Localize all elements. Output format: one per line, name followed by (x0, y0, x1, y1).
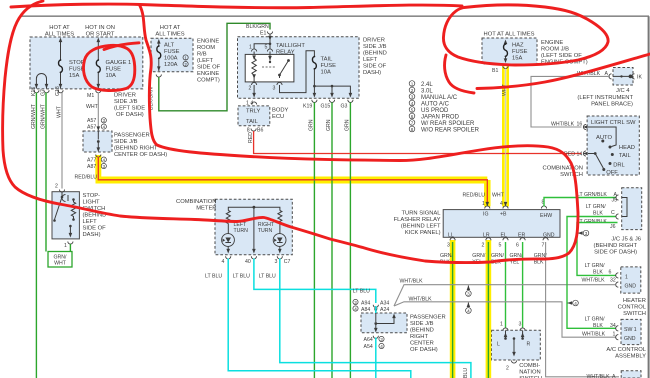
svg-text:DRIVER: DRIVER (114, 93, 136, 99)
svg-text:ASSEMBLY: ASSEMBLY (615, 354, 646, 360)
stop light switch box (52, 192, 79, 239)
svg-text:L: L (497, 342, 500, 348)
svg-text:G3: G3 (341, 104, 348, 110)
RED wire from B6 to light control switch (254, 131, 582, 154)
svg-text:J/C J5 & J6: J/C J5 & J6 (611, 237, 641, 243)
svg-text:HOT IN ON: HOT IN ON (85, 25, 115, 31)
svg-text:OFF: OFF (606, 170, 618, 176)
svg-text:AUTO: AUTO (596, 135, 612, 141)
svg-text:RED: RED (248, 132, 254, 143)
blob lower sweep (477, 54, 650, 89)
gauge 1 fuse (96, 59, 100, 73)
svg-text:B6: B6 (257, 128, 263, 134)
svg-text:3: 3 (585, 231, 588, 236)
svg-text:WHT/BLK: WHT/BLK (400, 279, 424, 285)
svg-text:A54: A54 (364, 344, 373, 350)
svg-text:2: 2 (249, 86, 252, 92)
engine room J/B HAZ fuse box (482, 38, 537, 64)
svg-text:3: 3 (447, 243, 450, 249)
svg-text:GND: GND (624, 336, 636, 342)
svg-text:US PROD: US PROD (421, 108, 449, 114)
svg-text:2: 2 (506, 366, 509, 372)
svg-text:120A: 120A (164, 62, 178, 68)
stop fuse feed arrow (60, 41, 62, 60)
WHT wire M1 to A57 (97, 93, 99, 129)
svg-text:3: 3 (519, 322, 522, 328)
svg-text:2: 2 (411, 88, 414, 93)
svg-text:A77: A77 (87, 158, 96, 164)
svg-text:WHT: WHT (54, 261, 67, 267)
svg-text:A24: A24 (380, 307, 389, 313)
svg-text:3: 3 (273, 86, 276, 92)
switch common stem to pin 2 (513, 337, 516, 340)
tail fuse (312, 56, 316, 70)
svg-text:3: 3 (103, 118, 106, 123)
svg-text:4: 4 (103, 125, 106, 130)
svg-text:HEATER: HEATER (623, 298, 646, 304)
svg-text:A/C CONTROL: A/C CONTROL (606, 347, 646, 353)
footnote marker 3 (578, 231, 583, 235)
svg-text:4: 4 (222, 259, 225, 265)
svg-text:16: 16 (577, 122, 583, 128)
svg-text:DRIVER: DRIVER (363, 38, 385, 44)
svg-text:5: 5 (499, 243, 502, 249)
svg-text:2.4L: 2.4L (421, 82, 433, 88)
svg-text:WHT: WHT (57, 105, 63, 118)
svg-text:1 4: 1 4 (246, 101, 253, 107)
top bus (228, 207, 280, 210)
svg-text:G13: G13 (55, 86, 61, 96)
ALT terminal (156, 75, 161, 78)
terminals A94/A84 A34/A24 (353, 299, 358, 305)
svg-text:K19: K19 (303, 104, 312, 110)
svg-text:4: 4 (500, 201, 503, 207)
C wire down to A/C assembly (567, 217, 616, 329)
svg-text:BODY: BODY (272, 108, 289, 114)
svg-text:1: 1 (249, 45, 252, 51)
svg-text:A57: A57 (87, 118, 96, 124)
svg-text:SIDE J/B: SIDE J/B (363, 44, 387, 50)
footnote arrow 4 (467, 303, 471, 308)
flick over circle (104, 43, 139, 50)
svg-text:TURN SIGNAL: TURN SIGNAL (402, 211, 442, 217)
svg-text:7: 7 (542, 243, 545, 249)
J6 wire down to heater switch (577, 223, 618, 276)
svg-text:GRN/: GRN/ (491, 253, 505, 259)
svg-text:(BEHIND LEFT: (BEHIND LEFT (401, 224, 441, 230)
svg-text:W/O REAR SPOILER: W/O REAR SPOILER (421, 128, 480, 134)
HAZ blob (443, 5, 608, 65)
svg-text:DASH): DASH) (363, 70, 381, 76)
svg-text:3: 3 (411, 95, 414, 100)
svg-text:GRN: GRN (309, 119, 315, 131)
svg-text:COMBINATION: COMBINATION (176, 199, 216, 205)
svg-text:TAIL: TAIL (246, 119, 259, 125)
svg-text:3.0L: 3.0L (421, 89, 433, 95)
svg-text:(LEFT: (LEFT (197, 58, 214, 64)
svg-text:LT GRN/: LT GRN/ (585, 317, 606, 323)
svg-text:FUSE: FUSE (321, 63, 337, 69)
svg-text:LIGHT CTRL SW: LIGHT CTRL SW (591, 120, 636, 126)
svg-text:HEAD: HEAD (619, 145, 635, 151)
svg-text:(LEFT SIDE: (LEFT SIDE (114, 106, 145, 112)
svg-text:PASSENGER: PASSENGER (410, 315, 446, 321)
circled 2 (183, 61, 188, 67)
svg-text:TAILLIGHT: TAILLIGHT (276, 43, 305, 49)
svg-text:EHW: EHW (540, 213, 552, 219)
footnote arrow 3 (467, 286, 471, 291)
svg-text:32: 32 (610, 278, 616, 284)
svg-text:(LEFT INSTRUMENT: (LEFT INSTRUMENT (577, 95, 633, 101)
gauge fuse circle (83, 45, 134, 90)
right resistor (278, 211, 282, 224)
svg-text:LT BLU: LT BLU (463, 368, 469, 378)
svg-text:METER: METER (196, 206, 216, 212)
svg-text:ECU: ECU (272, 114, 284, 120)
taillight relay inner box (245, 54, 294, 82)
svg-text:1: 1 (625, 275, 628, 281)
svg-text:M1: M1 (87, 93, 94, 99)
svg-text:ROOM J/B: ROOM J/B (541, 47, 569, 53)
svg-text:HOT AT: HOT AT (160, 25, 181, 31)
RED/BLU wire core (highlighted) (98, 157, 487, 206)
svg-text:COMPT): COMPT) (197, 78, 220, 84)
svg-text:B1: B1 (492, 68, 498, 74)
engine room R/B ALT fuse box (151, 38, 193, 71)
svg-text:CENTER OF DASH): CENTER OF DASH) (114, 152, 167, 158)
feed to pin 5 (269, 44, 271, 49)
svg-text:J5: J5 (612, 198, 618, 204)
svg-text:WHT/BLK: WHT/BLK (587, 374, 611, 378)
svg-text:J/C 4: J/C 4 (616, 88, 630, 94)
svg-text:A57: A57 (87, 125, 96, 131)
svg-text:WHT: WHT (492, 193, 505, 199)
svg-text:PANEL BRACE): PANEL BRACE) (591, 102, 633, 108)
svg-text:BLK/GRN: BLK/GRN (246, 24, 269, 30)
light control switch box (587, 116, 639, 175)
svg-text:10A: 10A (106, 73, 116, 79)
svg-text:40: 40 (245, 259, 251, 265)
svg-text:(BEHIND: (BEHIND (363, 51, 387, 57)
svg-text:G15: G15 (321, 104, 331, 110)
svg-text:CENTER: CENTER (410, 341, 434, 347)
svg-text:RELAY: RELAY (276, 50, 295, 56)
svg-text:GRN: GRN (326, 119, 332, 131)
svg-text:ALL TIMES: ALL TIMES (45, 32, 74, 38)
svg-text:GRN/: GRN/ (440, 253, 454, 259)
svg-text:MANUAL A/C: MANUAL A/C (421, 95, 458, 101)
svg-text:(BEHIND RIGHT: (BEHIND RIGHT (114, 146, 158, 152)
svg-text:A87: A87 (87, 164, 96, 170)
svg-text:+B: +B (500, 212, 507, 218)
svg-text:TURN: TURN (234, 228, 249, 234)
svg-text:RED/BLU: RED/BLU (463, 193, 486, 199)
svg-text:ALL TIMES: ALL TIMES (155, 32, 184, 38)
svg-text:SIDE J/B: SIDE J/B (114, 99, 138, 105)
relay contact (269, 54, 271, 60)
svg-text:1: 1 (184, 55, 187, 60)
svg-text:E1: E1 (260, 31, 266, 37)
svg-text:SWITCH: SWITCH (560, 172, 583, 178)
svg-text:IG: IG (483, 212, 488, 218)
svg-text:1: 1 (64, 243, 67, 249)
svg-text:ENGINE: ENGINE (197, 71, 219, 77)
svg-text:FLASHER RELAY: FLASHER RELAY (394, 217, 441, 223)
feed to pin 1 (254, 44, 270, 49)
svg-text:FUSE: FUSE (164, 49, 180, 55)
svg-text:IK: IK (637, 75, 642, 81)
driver side J/B fuse box (left) (30, 37, 143, 89)
svg-text:LT BLU: LT BLU (233, 274, 250, 280)
wire GRN/WHT K15 (35, 93, 37, 378)
highlighted LL wire (450, 240, 456, 378)
svg-text:TURN: TURN (258, 228, 273, 234)
svg-text:ENGINE: ENGINE (541, 40, 563, 46)
svg-text:(LEFT SIDE OF: (LEFT SIDE OF (541, 53, 582, 59)
turn signal flasher relay box (443, 210, 560, 238)
svg-text:GAUGE 1: GAUGE 1 (106, 60, 132, 66)
svg-text:SIDE OF: SIDE OF (197, 65, 221, 71)
svg-text:2: 2 (55, 184, 58, 190)
svg-text:8: 8 (411, 127, 414, 132)
svg-text:4: 4 (411, 101, 414, 106)
svg-text:OF DASH): OF DASH) (410, 347, 438, 353)
svg-text:4: 4 (103, 158, 106, 163)
svg-text:CONTROL: CONTROL (618, 305, 647, 311)
highlighted RED/BLU wire vertical from passenger J/B (95, 155, 101, 180)
K19 G15 G3 terminals (312, 100, 317, 103)
svg-text:A34: A34 (380, 301, 389, 307)
svg-text:LT BLU: LT BLU (259, 274, 276, 280)
stop fuse lead down (60, 73, 62, 89)
svg-text:A: A (612, 374, 616, 378)
svg-text:WHT: WHT (502, 83, 508, 96)
E1 terminal (267, 32, 272, 35)
highlighted horizontal run (96, 177, 488, 184)
svg-text:GRN/: GRN/ (472, 253, 486, 259)
svg-text:(BEHIND RIGHT: (BEHIND RIGHT (594, 243, 638, 249)
svg-text:5: 5 (411, 108, 414, 113)
top stroke (11, 4, 462, 8)
svg-text:HAZ: HAZ (512, 43, 524, 49)
svg-text:ALT: ALT (164, 43, 175, 49)
svg-text:7: 7 (411, 121, 414, 126)
svg-text:SWITCH: SWITCH (623, 311, 646, 317)
svg-text:1: 1 (482, 201, 485, 207)
combination switch box (492, 330, 541, 360)
svg-text:C7: C7 (284, 259, 291, 265)
svg-text:3: 3 (103, 164, 106, 169)
svg-text:FUSE: FUSE (512, 49, 528, 55)
svg-text:3: 3 (354, 300, 357, 305)
blob tail (445, 55, 474, 93)
EHW wire to J/C (544, 198, 616, 207)
A/C control assembly box (621, 319, 641, 344)
svg-text:14: 14 (577, 152, 583, 158)
heater control switch box (621, 267, 641, 293)
resistor right side (72, 198, 75, 201)
big loop: between boxes, sweep right, plunge, return, left side (3, 1, 578, 263)
svg-text:SW 1: SW 1 (624, 327, 637, 333)
EL / ER wires (505, 242, 507, 328)
svg-text:W/ REAR SPOILER: W/ REAR SPOILER (421, 121, 475, 127)
svg-text:AUTO A/C: AUTO A/C (421, 102, 450, 108)
internal bracket (622, 198, 628, 217)
relay coil (252, 55, 256, 60)
svg-text:STOP-: STOP- (83, 193, 101, 199)
svg-text:LT GRN/: LT GRN/ (586, 204, 607, 210)
svg-text:GRN: GRN (345, 119, 351, 131)
svg-text:SIDE OF: SIDE OF (363, 64, 387, 70)
svg-text:15A: 15A (512, 56, 522, 62)
svg-text:3: 3 (275, 259, 278, 265)
svg-text:OR START: OR START (86, 32, 115, 38)
svg-text:FUSE: FUSE (106, 67, 122, 73)
HAZ fuse (504, 43, 508, 57)
jumper loop inside J/B (36, 73, 46, 88)
B1 terminal (503, 66, 508, 69)
svg-text:BLK: BLK (593, 211, 603, 217)
LL / LR green cores in yellow (452, 242, 454, 378)
svg-text:WHT/BLK: WHT/BLK (582, 332, 606, 338)
svg-text:DASH): DASH) (83, 232, 101, 238)
J/C box bottom right (621, 371, 641, 378)
svg-text:TRLY: TRLY (246, 109, 261, 115)
svg-text:JAPAN PROD: JAPAN PROD (421, 115, 460, 121)
svg-text:(BEHIND: (BEHIND (410, 328, 434, 334)
svg-text:WHT/BLK: WHT/BLK (582, 278, 606, 284)
svg-text:10A: 10A (321, 70, 331, 76)
bottom pins (226, 249, 230, 254)
svg-text:3: 3 (380, 337, 383, 342)
svg-text:6: 6 (411, 114, 414, 119)
left resistor (226, 211, 230, 224)
gauge fuse feed arrow (97, 41, 99, 60)
svg-text:SIDE OF: SIDE OF (83, 226, 107, 232)
WHT wire core from HAZ into +B (505, 69, 507, 206)
svg-text:C: C (611, 210, 615, 216)
svg-text:LEFT: LEFT (363, 57, 378, 63)
highlighted drop to IG pin (484, 180, 491, 207)
combination meter box (215, 199, 292, 255)
driver side J/B taillight relay box (238, 37, 360, 99)
svg-text:GRN/WHT: GRN/WHT (40, 103, 46, 129)
svg-text:LT GRN/: LT GRN/ (585, 263, 606, 269)
left turn LED (222, 234, 235, 247)
svg-text:R: R (527, 342, 531, 348)
GND wire to bottom J/C (546, 242, 619, 377)
svg-text:BLK: BLK (593, 323, 603, 329)
svg-text:1: 1 (411, 82, 414, 87)
svg-text:TAIL: TAIL (321, 57, 334, 63)
green wires K19 G15 G3 (313, 102, 315, 378)
svg-text:A64: A64 (364, 337, 373, 343)
svg-text:6: 6 (516, 243, 519, 249)
pin3 to tail fuse riser (280, 51, 315, 93)
GRN/WHT wire + label box (69, 244, 71, 252)
svg-text:GND: GND (625, 284, 637, 290)
J/B internal junction (374, 308, 378, 313)
svg-text:RED/BLU: RED/BLU (75, 175, 98, 181)
svg-text:100A: 100A (164, 56, 178, 62)
J/C 4 box (613, 68, 633, 86)
svg-text:OF DASH): OF DASH) (116, 112, 144, 118)
highlighted LR wire (486, 240, 492, 378)
svg-text:RIGHT: RIGHT (410, 334, 428, 340)
svg-text:PASSENGER: PASSENGER (114, 133, 150, 139)
wire GRN/WHT G7 (45, 93, 47, 252)
svg-text:COMBI-: COMBI- (519, 363, 540, 369)
svg-text:LT BLU: LT BLU (205, 274, 222, 280)
svg-text:KICK PANEL): KICK PANEL) (405, 230, 441, 236)
wire LT BLU below J/B (375, 338, 377, 378)
svg-text:2: 2 (482, 243, 485, 249)
svg-text:LIGHT: LIGHT (83, 200, 101, 206)
svg-text:SIDE OF DASH): SIDE OF DASH) (594, 250, 637, 256)
svg-text:5: 5 (265, 45, 268, 51)
stop fuse (59, 59, 63, 73)
svg-text:LT BLU: LT BLU (353, 289, 370, 295)
highlighted WHT wire from HAZ fuse (502, 67, 509, 207)
svg-text:ROOM: ROOM (197, 45, 215, 51)
svg-text:SIDE J/B: SIDE J/B (114, 139, 138, 145)
svg-text:A84: A84 (361, 307, 370, 313)
svg-text:4: 4 (380, 344, 383, 349)
svg-text:4: 4 (574, 301, 577, 306)
top frame line (21, 15, 649, 17)
wire WHT G13 (61, 93, 63, 189)
svg-text:SIDE J/B: SIDE J/B (410, 321, 434, 327)
arrow-4 marker right (568, 301, 573, 305)
svg-text:A94: A94 (361, 301, 370, 307)
svg-text:R/B: R/B (197, 52, 207, 58)
passenger side J/B box (lower) (361, 313, 407, 333)
svg-text:3: 3 (467, 292, 470, 297)
svg-text:ENGINE: ENGINE (197, 39, 219, 45)
tail fuse lower run with junctions (314, 69, 350, 96)
svg-text:HOT AT ALL TIMES: HOT AT ALL TIMES (484, 32, 535, 38)
circled 1 (183, 55, 188, 61)
wire BLK/GRN from ALT to E1 (159, 23, 270, 111)
svg-text:BLK: BLK (593, 270, 603, 276)
WHT/BLK link wire J/C4 to light ctrl sw (531, 76, 610, 127)
body ECU box (238, 106, 270, 126)
svg-text:WHT: WHT (86, 104, 99, 110)
svg-text:2: 2 (184, 62, 187, 67)
svg-text:J6: J6 (610, 224, 616, 230)
svg-text:COMBINATION: COMBINATION (543, 166, 583, 172)
svg-text:GRN/WHT: GRN/WHT (31, 103, 37, 129)
svg-text:4: 4 (354, 306, 357, 311)
svg-text:NATION: NATION (519, 370, 540, 376)
right turn LED (273, 234, 286, 247)
svg-text:LEFT: LEFT (83, 219, 98, 225)
svg-text:34: 34 (610, 323, 616, 329)
svg-text:4: 4 (467, 309, 470, 314)
svg-text:DRL: DRL (613, 163, 625, 169)
cyan wires (228, 259, 411, 378)
svg-text:HOT AT: HOT AT (49, 25, 70, 31)
svg-text:1: 1 (500, 322, 503, 328)
svg-text:15A: 15A (69, 73, 79, 79)
svg-text:1: 1 (613, 332, 616, 338)
right page edge (648, 16, 650, 378)
svg-text:6: 6 (609, 270, 612, 276)
svg-text:TAIL: TAIL (619, 153, 632, 159)
gauge fuse lead down (97, 73, 99, 89)
svg-text:WHT/BLK: WHT/BLK (551, 122, 575, 128)
passenger side J/B box (top) (83, 131, 112, 152)
